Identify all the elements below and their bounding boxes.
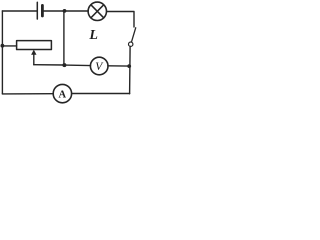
wire switch down right side to bottom corner	[129, 47, 132, 94]
battery short plate (right)	[41, 5, 44, 16]
node C junction dot	[1, 44, 5, 48]
wire lamp to top-right corner	[107, 12, 134, 28]
ammeter circle	[53, 84, 71, 102]
wire left side	[1, 11, 3, 94]
rheostat wiper arrow stem	[33, 54, 35, 65]
wire top-left from corner to battery	[2, 10, 36, 12]
voltmeter U circle	[90, 57, 108, 75]
switch pivot circle	[129, 42, 133, 46]
wire battery to lamp	[44, 10, 89, 12]
lamp X cross	[91, 5, 104, 18]
lamp L circle	[88, 2, 106, 20]
svg-text:A: A	[59, 90, 67, 101]
wire bottom-left to ammeter	[2, 93, 53, 95]
node D junction dot	[62, 63, 66, 67]
wire rheostat wiper to node D	[34, 64, 65, 66]
battery long plate (left)	[36, 2, 38, 19]
node B junction dot	[127, 64, 131, 68]
wire node A down to node D	[63, 11, 65, 65]
wire node C to rheostat left terminal	[2, 45, 16, 47]
rheostat body rectangle	[17, 41, 52, 50]
wire voltmeter to node B	[108, 65, 129, 67]
svg-text:L: L	[88, 28, 98, 43]
switch blade	[132, 28, 136, 42]
rheostat wiper arrowhead	[31, 50, 36, 55]
svg-text:V: V	[95, 61, 104, 73]
wire ammeter to bottom-right corner	[72, 93, 130, 95]
wire node D to voltmeter	[64, 64, 90, 67]
node A junction dot	[63, 9, 67, 13]
